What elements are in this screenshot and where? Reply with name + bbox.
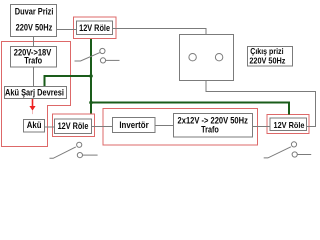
box charger Aku Sarj Devresi: [5, 87, 67, 99]
svg-text:12V Röle: 12V Röle: [58, 121, 89, 131]
svg-text:220V 50Hz: 220V 50Hz: [16, 23, 53, 33]
svg-text:220V 50Hz: 220V 50Hz: [249, 56, 285, 65]
wire battery to relay2: [45, 126, 55, 128]
svg-text:Akü Şarj Devresi: Akü Şarj Devresi: [5, 87, 64, 98]
svg-text:Trafo: Trafo: [201, 125, 219, 135]
box relay2 12V Role bottom-left: [55, 119, 92, 134]
svg-text:Çıkış prizi: Çıkış prizi: [250, 47, 283, 56]
label box Cikis prizi: [248, 47, 293, 67]
output socket symbol: [180, 35, 234, 81]
relay contact switch S3 bottom-right: [264, 142, 312, 158]
wire transformer to charger: [33, 67, 35, 87]
red highlight box relay top: [74, 17, 117, 39]
svg-text:Trafo: Trafo: [24, 56, 42, 66]
svg-text:Invertör: Invertör: [119, 120, 149, 130]
box inverter Invertor: [113, 118, 156, 133]
box relay1 12V Role top: [77, 21, 113, 35]
svg-text:12V Röle: 12V Röle: [274, 120, 305, 130]
wire inverter to transformer2: [155, 125, 174, 127]
wire relay3 to output socket: [206, 81, 316, 127]
green junction node A: [89, 74, 93, 78]
box wall outlet Duvar Prizi: [11, 5, 57, 37]
green wire branch to charger: [45, 76, 92, 87]
wire relay1 to output socket: [113, 29, 207, 35]
red arrow charger to battery: [29, 99, 35, 115]
box battery Aku: [24, 120, 45, 133]
wire wall-outlet to transformer: [33, 37, 35, 47]
wire relay2 to inverter: [92, 126, 113, 128]
relay contact switch S1 top: [75, 48, 120, 63]
red highlight box inverter group: [103, 109, 258, 146]
relay contact switch S2 bottom-left: [50, 142, 98, 158]
box transformer2 2x12V-220V: [174, 114, 253, 138]
green wire branch to relay3: [91, 103, 289, 115]
socket pin right: [215, 54, 222, 61]
green junction node B: [89, 101, 93, 105]
socket pin left: [189, 54, 196, 61]
wire wall-outlet to relay1: [57, 29, 77, 31]
box relay3 12V Role right: [270, 118, 307, 131]
svg-text:Duvar Prizi: Duvar Prizi: [15, 7, 54, 17]
red highlight box relay bottom-left: [53, 114, 95, 137]
svg-text:Akü: Akü: [27, 120, 42, 130]
wire transformer2 to relay3: [253, 126, 271, 128]
box transformer 220V-18V: [11, 47, 57, 68]
red group outline left (trafo+charger+battery): [2, 42, 71, 147]
red highlight box relay right: [267, 115, 309, 134]
svg-text:12V Röle: 12V Röle: [79, 23, 110, 33]
green wire relay1 down trunk: [90, 39, 92, 114]
